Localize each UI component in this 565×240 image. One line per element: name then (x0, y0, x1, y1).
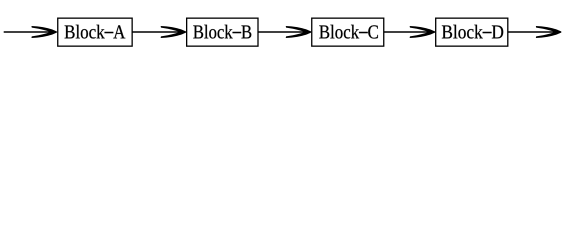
arrowhead of arrow B to C (286, 26, 312, 38)
wire shaft of input arrow (4, 31, 57, 33)
block Block-D box (436, 18, 508, 46)
wire shaft of arrow B to C (258, 31, 311, 33)
wire shaft of arrow C to D (384, 31, 435, 33)
arrowhead of input arrow (31, 26, 57, 38)
label Block-D text (442, 25, 503, 39)
arrowhead of output arrow (536, 26, 562, 38)
block Block-B box (187, 18, 258, 46)
label Block-A text (65, 25, 126, 39)
label Block-C text (319, 25, 378, 39)
wire shaft of arrow A to B (132, 31, 186, 33)
wire shaft of output arrow (508, 31, 561, 33)
arrowhead of arrow A to B (161, 26, 187, 38)
label Block-B text (193, 25, 251, 39)
block Block-C box (312, 18, 384, 46)
block Block-A box (58, 18, 132, 46)
arrowhead of arrow C to D (410, 26, 436, 38)
